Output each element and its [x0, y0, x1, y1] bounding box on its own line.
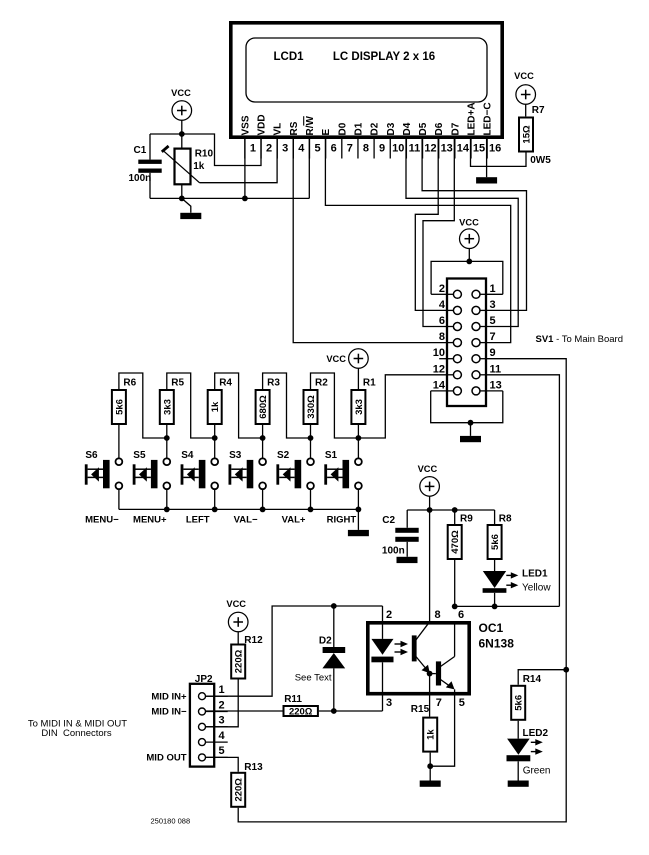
svg-text:330Ω: 330Ω [306, 395, 317, 419]
svg-text:6: 6 [331, 143, 337, 155]
svg-text:D7: D7 [450, 122, 461, 135]
wire R10 top [181, 134, 183, 149]
wire R6 bottom to S6 [118, 425, 120, 458]
resistor R1 [351, 390, 365, 424]
wire LED1 net horizontal [455, 605, 560, 607]
wire C1 bottom [149, 173, 151, 199]
wire R14 top [518, 670, 566, 685]
wire C1 left drop [149, 134, 151, 160]
ground (C2) [397, 557, 418, 563]
wire VCC rail (opto) [407, 509, 494, 511]
wire R3 bottom to S3 [262, 425, 264, 458]
wire S4 bottom drop [214, 489, 216, 509]
wire D7 (pin14) to SV1 pin 6 [423, 139, 454, 327]
svg-text:4: 4 [298, 143, 305, 155]
ground (switch rail) [348, 530, 369, 536]
svg-text:250180 088: 250180 088 [151, 817, 191, 826]
svg-text:LED2: LED2 [523, 728, 549, 739]
wire R15 bottom [429, 753, 431, 767]
resistor R7 [519, 118, 533, 152]
svg-text:15: 15 [473, 143, 485, 155]
svg-text:VCC: VCC [226, 599, 246, 609]
svg-text:9: 9 [379, 143, 385, 155]
svg-text:LED+A: LED+A [467, 102, 478, 135]
transistor Q2 (OC1 output) [436, 661, 441, 685]
wire R2 top bracket [311, 373, 359, 438]
OC1 LED cathode wire [382, 662, 384, 711]
wire R9 top stub [454, 510, 456, 524]
svg-text:1: 1 [490, 283, 496, 295]
svg-text:R9: R9 [460, 513, 473, 524]
wire R5 bottom to S5 [166, 425, 168, 458]
wire R6 top bracket [119, 373, 167, 438]
svg-text:15Ω: 15Ω [522, 125, 533, 144]
svg-text:D4: D4 [402, 122, 413, 135]
OC1 LED emission arrows [395, 643, 403, 645]
power VCC (R12) [226, 599, 248, 632]
wire pin2 stub [431, 293, 447, 295]
svg-text:3: 3 [490, 299, 496, 311]
OC1 internal LED [371, 639, 393, 655]
resistor R13 [231, 773, 245, 807]
wire ground rail [150, 197, 309, 199]
svg-text:D1: D1 [353, 122, 364, 135]
svg-text:680Ω: 680Ω [258, 395, 269, 419]
svg-text:R8: R8 [499, 513, 512, 524]
wire R3 top bracket [263, 373, 311, 438]
optocoupler OC1 outline [368, 623, 469, 694]
svg-text:MID IN+: MID IN+ [151, 691, 187, 702]
power VCC (opto section) [418, 464, 440, 496]
node ground bracket junction [468, 420, 474, 426]
wire R4 bottom to S4 [214, 425, 216, 458]
wire VCC top rail [150, 134, 261, 166]
svg-text:DIN Connectors: DIN Connectors [41, 728, 111, 739]
svg-text:LED1: LED1 [522, 569, 548, 580]
LED LED2 [507, 739, 530, 755]
svg-text:5: 5 [490, 315, 496, 327]
wire R10 bottom [181, 184, 183, 198]
node OC1 pin6 junction [452, 604, 458, 610]
svg-text:S6: S6 [85, 450, 98, 461]
svg-text:R6: R6 [123, 377, 136, 388]
OC1 pin 2 wire [382, 606, 384, 639]
ground (SV1) [460, 436, 481, 442]
wire LED1 bottom [494, 593, 496, 607]
svg-text:5k6: 5k6 [490, 534, 501, 550]
wire VCC to R12 [237, 632, 239, 644]
ground (LED2) [508, 781, 529, 787]
svg-text:VDD: VDD [257, 114, 268, 135]
resistor R8 [488, 525, 502, 559]
svg-text:5k6: 5k6 [114, 399, 125, 415]
svg-text:2: 2 [219, 699, 225, 711]
svg-text:MENU+: MENU+ [133, 515, 167, 526]
node junction R5 bottom [164, 435, 170, 441]
node rail junction S3 [260, 507, 266, 513]
OC1 pin 8 wire [429, 510, 431, 621]
svg-text:VCC: VCC [171, 88, 191, 98]
wire R5 top bracket [167, 373, 215, 438]
wire RS (pin4) to SV1 pin 8 [293, 139, 447, 343]
svg-text:Yellow: Yellow [522, 583, 551, 594]
diode D2 [333, 606, 335, 647]
power VCC (ladder) [326, 349, 368, 369]
node VCC-rail OC1 pin8 [427, 507, 433, 513]
svg-text:5: 5 [219, 745, 225, 757]
switch S2 [276, 458, 314, 489]
wire LED2 bottom [517, 761, 519, 780]
wire ground stub (SV1) [470, 423, 472, 436]
capacitor C1 [138, 160, 161, 164]
node D2 bottom junction [331, 708, 337, 714]
node junction R2 bottom [308, 435, 314, 441]
ground (below R10) [182, 198, 191, 212]
node LED1 junction [492, 604, 498, 610]
svg-text:D2: D2 [370, 122, 381, 135]
svg-text:220Ω: 220Ω [234, 649, 245, 673]
svg-text:R15: R15 [411, 704, 430, 715]
wire ground bracket pins 13,14 [431, 391, 503, 423]
node VCC-rail R9 top [452, 507, 458, 513]
svg-text:13: 13 [490, 379, 502, 391]
wire R13 to SV1 pin9 net [238, 670, 566, 822]
wire rail to ground [357, 509, 359, 530]
svg-text:1k: 1k [426, 729, 437, 740]
wire VCC to R7 [525, 104, 527, 116]
svg-text:8: 8 [363, 143, 369, 155]
svg-text:LEFT: LEFT [186, 515, 210, 526]
SV1 internal pin stubs [447, 294, 486, 391]
resistor R9 [448, 525, 462, 559]
svg-text:12: 12 [424, 143, 436, 155]
svg-text:2: 2 [386, 609, 392, 621]
wire R14 to LED2 [517, 721, 519, 739]
svg-text:VSS: VSS [240, 115, 251, 135]
svg-text:C2: C2 [382, 515, 395, 526]
svg-text:13: 13 [441, 143, 453, 155]
svg-text:VAL−: VAL− [234, 515, 258, 526]
svg-text:VL: VL [273, 123, 284, 136]
wire SV1 pin 12 to button ladder [358, 375, 447, 438]
svg-text:8: 8 [439, 331, 445, 343]
svg-text:1: 1 [219, 684, 225, 696]
svg-text:R14: R14 [523, 674, 542, 685]
wire C2 bottom [406, 542, 408, 557]
node R14 junction [563, 667, 569, 673]
node OC1 internal junction [427, 671, 433, 677]
wire E (pin6) to SV1 pin 7 [325, 139, 510, 343]
svg-text:VCC: VCC [418, 464, 438, 474]
svg-text:3: 3 [282, 143, 288, 155]
wire R/W drop [308, 139, 310, 198]
svg-text:100n: 100n [382, 546, 405, 557]
LCD pin numbers 1-16 [250, 143, 501, 155]
svg-text:3: 3 [386, 697, 392, 709]
svg-text:S5: S5 [133, 450, 146, 461]
svg-text:S4: S4 [181, 450, 194, 461]
switch S1 [324, 458, 362, 489]
wire S1 bottom drop [357, 489, 359, 509]
wire VCC stub down [181, 120, 183, 134]
svg-text:LC DISPLAY 2 x 16: LC DISPLAY 2 x 16 [333, 51, 435, 63]
JP2 pin stubs [206, 696, 228, 757]
svg-text:See Text: See Text [295, 673, 332, 684]
power VCC (SV1) [459, 218, 479, 249]
svg-text:9: 9 [490, 347, 496, 359]
node junction R4 bottom [212, 435, 218, 441]
svg-text:14: 14 [457, 143, 470, 155]
resistor R14 [511, 686, 525, 720]
node rail junction S5 [164, 507, 170, 513]
node D2 top junction [331, 603, 337, 609]
svg-text:7: 7 [436, 697, 442, 709]
svg-text:5: 5 [314, 143, 320, 155]
svg-text:1k: 1k [210, 401, 221, 412]
svg-text:LCD1: LCD1 [273, 51, 304, 63]
svg-text:100n: 100n [129, 173, 152, 184]
svg-text:14: 14 [433, 379, 446, 391]
wire LED-C pin 16 down [486, 139, 488, 177]
svg-text:4: 4 [439, 299, 446, 311]
svg-text:5: 5 [459, 697, 465, 709]
wire S2 bottom drop [310, 489, 312, 509]
svg-text:10: 10 [392, 143, 404, 155]
node junction R1 bottom [356, 435, 362, 441]
svg-text:D3: D3 [386, 122, 397, 135]
potentiometer R10 [175, 149, 191, 185]
svg-text:D2: D2 [319, 636, 332, 647]
node rail junction S2 [308, 507, 314, 513]
svg-text:R3: R3 [267, 377, 280, 388]
svg-text:6N138: 6N138 [479, 637, 515, 651]
svg-text:D0: D0 [337, 122, 348, 135]
switch S6 [85, 458, 123, 489]
svg-text:MID IN−: MID IN− [151, 707, 187, 718]
OC1 pin 7 wire [429, 674, 431, 717]
svg-text:RS: RS [289, 121, 300, 135]
svg-text:RIGHT: RIGHT [327, 515, 357, 526]
wire R1 bottom to S1 [357, 425, 359, 458]
svg-text:2: 2 [439, 283, 445, 295]
LCD pin name labels VSS..LED-C [240, 102, 493, 135]
svg-text:0W5: 0W5 [530, 155, 551, 166]
svg-text:11: 11 [490, 363, 502, 375]
wire pin1 stub [486, 293, 503, 295]
node junction R3 bottom [260, 435, 266, 441]
svg-text:R1: R1 [363, 377, 376, 388]
wire pin14 stub [431, 390, 447, 392]
switch S4 [181, 458, 219, 489]
node VCC rail junction [179, 131, 185, 137]
wire VL wiper to pin 3 [200, 139, 278, 183]
svg-text:470Ω: 470Ω [450, 530, 461, 554]
resistor R6 [112, 390, 126, 424]
capacitor C2 [395, 528, 418, 533]
svg-text:8: 8 [435, 609, 441, 621]
node R10-rail junction [179, 196, 185, 202]
wire ground stub (R15) [429, 766, 431, 780]
JP2 pin numbers [219, 684, 226, 757]
svg-text:1k: 1k [193, 161, 205, 172]
wire R4 top bracket [215, 373, 263, 438]
node VCC bracket junction [466, 259, 472, 265]
wire VCC to R1 [357, 368, 359, 389]
power VCC (top left) [171, 88, 191, 120]
svg-text:Green: Green [523, 766, 551, 777]
wire JP2 pin1 to OC1 pin2 [206, 606, 383, 696]
wire D4 (pin11) to SV1 pin 5 [406, 139, 518, 327]
svg-text:R12: R12 [244, 635, 263, 646]
LED LED1 [483, 571, 506, 588]
wire pin13 stub [486, 390, 503, 392]
svg-text:VCC: VCC [326, 354, 346, 364]
svg-text:7: 7 [490, 331, 496, 343]
wire R11 to OC1 pin3 [319, 710, 383, 712]
svg-text:11: 11 [409, 143, 421, 155]
svg-text:E: E [321, 129, 332, 136]
svg-text:6: 6 [439, 315, 445, 327]
svg-text:R13: R13 [244, 762, 263, 773]
svg-text:R10: R10 [195, 149, 214, 160]
connector SV1 outline [447, 279, 486, 407]
resistor R11 [284, 706, 318, 716]
svg-text:16: 16 [489, 143, 501, 155]
svg-text:5k6: 5k6 [514, 695, 525, 711]
node VSS-rail junction [242, 196, 248, 202]
transistor Q1 (OC1 input darlington) [412, 635, 417, 661]
svg-text:4: 4 [219, 730, 226, 742]
svg-text:R11: R11 [284, 694, 302, 705]
wire SV1 pin 9 to MIDI-OUT net [486, 359, 566, 670]
svg-text:2: 2 [266, 143, 272, 155]
LCD pin ticks 1-16 [245, 139, 487, 159]
wire SV1 pin 11 to LED1 net [486, 375, 559, 607]
ground (R15) [420, 781, 441, 787]
svg-text:R5: R5 [171, 377, 184, 388]
svg-text:VCC: VCC [459, 218, 479, 228]
svg-text:R/W: R/W [305, 116, 316, 136]
svg-text:S3: S3 [229, 450, 242, 461]
wire S3 bottom drop [262, 489, 264, 509]
svg-text:JP2: JP2 [195, 674, 213, 685]
wire VCC bracket to pins 1,2 [431, 261, 503, 294]
svg-text:S1: S1 [325, 450, 338, 461]
svg-text:VCC: VCC [514, 71, 534, 81]
svg-text:3k3: 3k3 [162, 399, 173, 415]
wire S6 bottom drop [118, 489, 120, 509]
wire JP2 pin2 to R11 [206, 710, 283, 712]
svg-text:6: 6 [458, 609, 464, 621]
wire D6 (pin13) to SV1 pin 4 [415, 139, 447, 310]
wire R9 bottom [454, 560, 456, 606]
node rail junction S1 [356, 507, 362, 513]
svg-text:SV1 - To Main Board: SV1 - To Main Board [536, 334, 624, 345]
svg-text:LED−C: LED−C [483, 102, 494, 135]
wire R8 top stub [494, 510, 496, 524]
svg-text:3: 3 [219, 715, 225, 727]
SV1 pin circles [453, 290, 480, 395]
wire R7 to LED+A pin 15 [471, 139, 527, 166]
svg-text:VAL+: VAL+ [282, 515, 306, 526]
resistor R2 [304, 390, 318, 424]
node R15 ground junction [427, 763, 433, 769]
LCD display window [246, 38, 487, 102]
wire C2 top [406, 510, 408, 528]
svg-text:3k3: 3k3 [354, 399, 365, 415]
wire R8 to LED1 [494, 560, 496, 571]
wire VCC stub (SV1) [468, 249, 470, 262]
wire D5 (pin12) to SV1 pin 3 [422, 139, 526, 310]
wire R12 to JP2 pin3 [206, 680, 239, 727]
resistor R5 [160, 390, 174, 424]
wire VSS drop [244, 139, 246, 198]
wire VCC stub (opto) [429, 496, 431, 510]
switch S5 [133, 458, 171, 489]
R10 wiper arrow [164, 151, 200, 183]
svg-text:220Ω: 220Ω [289, 707, 313, 718]
svg-text:D6: D6 [434, 122, 445, 135]
svg-text:7: 7 [347, 143, 353, 155]
JP2 pin circles [199, 693, 206, 761]
svg-text:R4: R4 [219, 377, 232, 388]
svg-text:OC1: OC1 [479, 621, 504, 635]
power VCC (R7) [514, 71, 535, 104]
resistor R15 [423, 718, 437, 752]
svg-text:MID OUT: MID OUT [146, 753, 186, 764]
wire JP2 pin5 to R13 [206, 757, 239, 771]
OC1 pin 5 wire [430, 689, 454, 766]
svg-text:C1: C1 [134, 145, 147, 156]
SV1 pin numbers [433, 283, 502, 392]
svg-text:R7: R7 [532, 105, 545, 116]
resistor R12 [231, 645, 245, 679]
wire S5 bottom drop [166, 489, 168, 509]
connector JP2 outline [190, 684, 214, 767]
switch S3 [229, 458, 267, 489]
svg-text:1: 1 [250, 143, 256, 155]
wire SV1 pin 10 n.c. stub [439, 358, 447, 360]
node rail junction S4 [212, 507, 218, 513]
resistor R4 [208, 390, 222, 424]
LCD module LCD1 outline [231, 23, 502, 137]
svg-text:MENU−: MENU− [85, 515, 119, 526]
ground (LED-C) [476, 177, 497, 183]
svg-text:R2: R2 [315, 377, 328, 388]
svg-text:10: 10 [433, 347, 445, 359]
svg-text:12: 12 [433, 363, 445, 375]
resistor R3 [256, 390, 270, 424]
svg-text:D5: D5 [418, 122, 429, 135]
wire R2 bottom to S2 [310, 425, 312, 458]
svg-text:220Ω: 220Ω [234, 778, 245, 802]
wire switch common rail [119, 508, 359, 510]
svg-text:S2: S2 [277, 450, 290, 461]
